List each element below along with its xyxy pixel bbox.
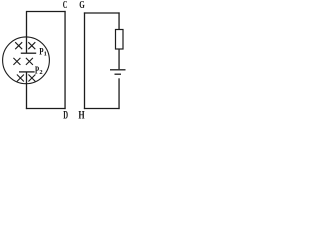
flux symbol x row3 right bbox=[28, 75, 35, 82]
svg-text:D: D bbox=[63, 108, 68, 121]
wire resistor to battery bbox=[118, 49, 120, 69]
flux symbol x row2 right bbox=[26, 58, 33, 65]
wire left loop bottom bbox=[26, 108, 66, 110]
battery negative short plate bbox=[115, 73, 122, 75]
terminal P2 bar bbox=[19, 71, 35, 73]
svg-text:C: C bbox=[63, 0, 68, 11]
wire from top-right corner down to resistor bbox=[118, 12, 120, 29]
svg-text:2: 2 bbox=[39, 69, 42, 76]
wire battery to bottom bbox=[118, 78, 120, 109]
svg-text:G: G bbox=[79, 0, 85, 11]
wire left loop top: from P1 terminal up, across top to C corner bbox=[26, 12, 66, 53]
battery positive long plate bbox=[110, 69, 126, 71]
wire right loop left side G to H bbox=[84, 12, 86, 109]
svg-text:1: 1 bbox=[44, 50, 47, 57]
flux symbol x row2 left bbox=[13, 58, 20, 65]
wire left loop lower left: from P2 terminal down to bottom bbox=[26, 72, 28, 109]
wire right loop top: G corner across to resistor side bbox=[84, 12, 120, 14]
flux symbol x row1 left bbox=[15, 42, 22, 49]
wire right loop bottom bbox=[84, 108, 120, 110]
flux symbol x row1 right bbox=[28, 42, 35, 49]
field region circle (B into page) bbox=[3, 37, 50, 84]
svg-text:H: H bbox=[78, 108, 85, 121]
resistor R body bbox=[116, 30, 124, 50]
terminal P1 bar bbox=[21, 52, 36, 54]
wire left loop right side C to D bbox=[64, 11, 66, 109]
flux symbol x row3 left bbox=[17, 75, 24, 82]
